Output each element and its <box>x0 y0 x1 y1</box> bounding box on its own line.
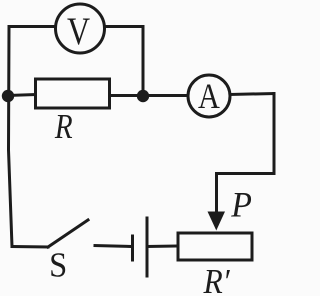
wire right edge vertical <box>273 94 276 174</box>
wire top-left horizontal <box>9 25 55 28</box>
battery BT1 short plate <box>131 236 134 260</box>
wire resistor R to node B <box>110 94 143 97</box>
voltmeter V1 circle <box>56 4 105 53</box>
switch S blade <box>48 220 88 247</box>
svg-text:R′: R′ <box>203 263 231 296</box>
wire left vertical <box>9 27 13 247</box>
wire ammeter to right edge <box>230 94 274 95</box>
wire rheostat to battery positive <box>148 245 176 249</box>
wire node B to ammeter <box>143 94 188 97</box>
svg-text:P: P <box>230 185 252 225</box>
wire node A to resistor R <box>8 95 35 96</box>
rheostat R' body <box>178 233 252 260</box>
wire voltmeter to right corner <box>105 25 144 28</box>
wire corner to wiper <box>217 172 275 175</box>
svg-text:S: S <box>49 246 67 284</box>
svg-text:R: R <box>54 106 73 145</box>
node A junction dot <box>2 90 14 102</box>
resistor R body <box>36 79 110 108</box>
node B junction dot <box>137 90 149 102</box>
wiper arrow shaft P <box>215 174 218 215</box>
wire right vertical down to node B <box>142 27 145 97</box>
wire battery to switch contact <box>95 246 131 247</box>
ammeter A1 circle <box>188 75 230 117</box>
svg-text:V: V <box>67 9 90 53</box>
svg-text:A: A <box>198 77 220 117</box>
wiper arrowhead <box>208 212 226 231</box>
battery BT1 long plate <box>146 218 149 276</box>
wire bottom-left to switch pivot <box>12 245 48 249</box>
